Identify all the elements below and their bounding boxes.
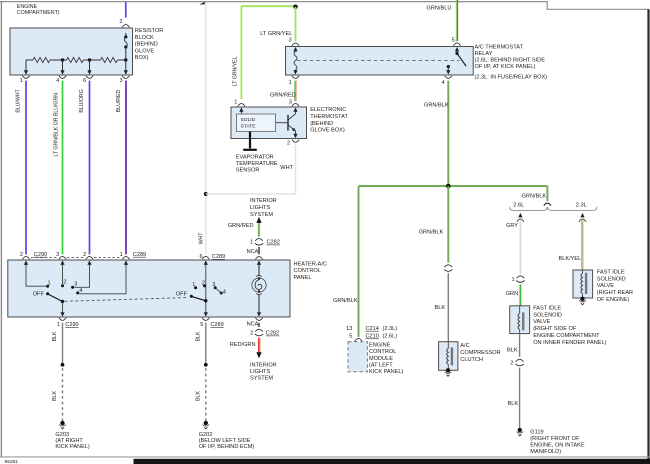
label engine compartment [17, 4, 60, 16]
blower switch feed wires inside panel [26, 265, 126, 294]
panel pin 1 C289 [120, 252, 147, 265]
svg-text:(2.6L: BEHIND RIGHT SIDE: (2.6L: BEHIND RIGHT SIDE [475, 58, 546, 64]
blower switch wiper arm [49, 294, 65, 312]
svg-text:NCA: NCA [247, 249, 259, 255]
panel top pin 1 C282 for lamp [247, 239, 280, 265]
svg-text:MODULE: MODULE [369, 356, 393, 362]
pin 2 resistor block [119, 19, 129, 33]
svg-text:4: 4 [79, 288, 82, 294]
svg-text:COMPRESSOR: COMPRESSOR [460, 350, 500, 356]
relay internal dashed divider [297, 59, 460, 61]
svg-text:GLOVE: GLOVE [135, 48, 155, 54]
svg-text:1: 1 [192, 282, 195, 288]
svg-text:PANEL: PANEL [294, 275, 312, 281]
wire GRN/BLK from relay pin 4 [424, 81, 449, 186]
2.6L branch tap arrow [517, 213, 524, 222]
svg-text:C282: C282 [266, 331, 279, 337]
wire BLU/ORG [79, 81, 89, 255]
resistor element 2 [67, 57, 84, 62]
svg-text:OFF: OFF [33, 292, 45, 298]
svg-text:BLK: BLK [435, 305, 446, 311]
svg-text:LT GRN/BLK OR BLU/GRN: LT GRN/BLK OR BLU/GRN [53, 93, 59, 157]
svg-text:4: 4 [223, 290, 226, 296]
a/c compressor clutch box [439, 342, 458, 371]
svg-text:INTERIOR: INTERIOR [250, 363, 277, 369]
svg-text:ENGINE: ENGINE [17, 4, 38, 10]
svg-text:(BEHIND: (BEHIND [310, 121, 333, 127]
page frame top border [0, 2, 648, 10]
wire BLK from panel pin 5 [195, 323, 206, 365]
junction dots on resistor chain [61, 58, 128, 61]
svg-text:GRN/BLK: GRN/BLK [522, 193, 547, 199]
label fast idle solenoid valve 2.6L [533, 305, 606, 346]
solid state module box [237, 114, 276, 132]
wire between C282 and panel edge [258, 247, 260, 254]
svg-text:BLU/WHT: BLU/WHT [16, 88, 22, 112]
svg-text:TEMPERATURE: TEMPERATURE [236, 161, 278, 167]
svg-text:2.3L: 2.3L [576, 202, 587, 208]
svg-text:3: 3 [212, 282, 215, 288]
wire LT GRN/YEL right leg to relay pin 3 [260, 7, 295, 41]
svg-text:3: 3 [56, 252, 59, 258]
svg-text:VALVE: VALVE [597, 283, 614, 289]
wire BLU/WHT [16, 81, 27, 255]
resistor element 3 [101, 57, 118, 62]
panel bottom pin 2 C282 [247, 312, 280, 336]
thermostat pin 2 [287, 134, 299, 147]
svg-text:3: 3 [119, 78, 122, 84]
svg-text:BOX): BOX) [135, 55, 149, 61]
dashed BLK wire to G202 [195, 368, 206, 421]
relay coil [294, 51, 297, 69]
junction node LT GRN/YEL [293, 5, 298, 10]
wire WHT vertical run [198, 3, 205, 254]
svg-text:KICK PANEL): KICK PANEL) [369, 369, 404, 375]
label heater a/c control panel [294, 261, 327, 281]
panel pin 3 [56, 252, 66, 265]
svg-text:FAST IDLE: FAST IDLE [597, 269, 625, 275]
svg-text:BLK: BLK [195, 331, 201, 341]
label fast idle solenoid valve 2.3L [597, 269, 633, 303]
thermostat pin 1 [234, 100, 245, 114]
transistor Q inside thermostat [276, 114, 296, 134]
svg-text:2: 2 [202, 280, 205, 286]
wire end connector caret [544, 203, 551, 205]
relay switch contacts and arm [447, 51, 467, 70]
svg-text:2: 2 [63, 280, 66, 286]
svg-text:CONTROL: CONTROL [369, 349, 396, 355]
inline connector 2 solenoid branch [510, 359, 524, 366]
wire GRN/BLK left leg to ECM [333, 186, 359, 337]
a/c thermostat relay box [286, 47, 474, 76]
resistor block bottom pin 3 [119, 70, 129, 84]
resistor block bottom pin 4 [56, 70, 66, 84]
svg-text:COMPARTMENT): COMPARTMENT) [17, 10, 60, 16]
wire GRN into left solenoid [506, 284, 521, 306]
electronic thermostat box [231, 107, 307, 139]
resistor element 1 [33, 57, 50, 62]
svg-text:GRN: GRN [506, 291, 518, 297]
ECM pin connector [346, 326, 397, 341]
svg-text:2: 2 [287, 141, 290, 147]
svg-text:GRY: GRY [506, 223, 518, 229]
svg-text:OF ENGINE): OF ENGINE) [597, 297, 630, 303]
wire BLU/RED [116, 81, 126, 255]
splice brace 2.6L/2.3L [510, 202, 597, 210]
svg-text:2: 2 [250, 331, 253, 337]
solenoid 2.3L coil [581, 270, 586, 298]
resistor block bottom pin 6 [83, 70, 93, 84]
svg-text:C214: C214 [366, 326, 379, 332]
junction node GRN/BLK [446, 184, 451, 189]
engine control module dashed box [348, 342, 367, 372]
solenoid 2.6L coil [518, 306, 523, 334]
svg-text:1: 1 [57, 322, 60, 328]
page frame right border [647, 9, 649, 464]
svg-text:4: 4 [56, 78, 59, 84]
wire BLK to compressor clutch [435, 273, 449, 342]
svg-text:(AT RIGHT: (AT RIGHT [55, 438, 83, 444]
svg-text:5: 5 [452, 38, 455, 44]
svg-text:C282: C282 [267, 240, 280, 246]
svg-text:MANIFOLD): MANIFOLD) [530, 449, 561, 455]
svg-text:RED/GRN: RED/GRN [230, 342, 256, 348]
panel pin 2b [83, 252, 93, 265]
fast idle solenoid valve 2.3L box [573, 270, 593, 298]
svg-text:BLK: BLK [52, 391, 58, 401]
svg-text:STATE: STATE [241, 123, 257, 129]
heater a/c control panel box [8, 260, 290, 317]
splice dot right ground wire [204, 363, 208, 367]
svg-text:3: 3 [74, 281, 77, 287]
svg-text:BLK: BLK [507, 347, 518, 353]
svg-text:C290: C290 [65, 322, 78, 328]
svg-text:1: 1 [20, 78, 23, 84]
svg-text:5: 5 [349, 334, 352, 340]
svg-text:(RIGHT SIDE OF: (RIGHT SIDE OF [533, 326, 577, 332]
label interior lights system top [250, 198, 277, 218]
svg-text:BLK: BLK [52, 331, 58, 341]
svg-text:85281: 85281 [5, 459, 19, 464]
svg-text:OF I/P, BEHIND ECM): OF I/P, BEHIND ECM) [199, 444, 255, 450]
svg-text:BLK: BLK [508, 401, 519, 407]
mode switch feed wire inside panel [205, 265, 207, 312]
page frame bottom line [0, 456, 650, 458]
2.3L branch tap arrow [579, 213, 586, 222]
svg-text:2: 2 [20, 252, 23, 258]
relay pin 1 [289, 70, 300, 86]
svg-text:CLUTCH: CLUTCH [460, 357, 483, 363]
svg-text:KICK PANEL): KICK PANEL) [55, 444, 90, 450]
svg-text:SOLID: SOLID [241, 117, 256, 123]
svg-text:A/C THERMOSTAT: A/C THERMOSTAT [475, 45, 524, 51]
blower switch contacts 1-4 and OFF [33, 280, 83, 298]
connector dashes C290/C289 along panel top [31, 256, 122, 258]
panel bottom pin 1 C290 [57, 312, 79, 328]
svg-text:SYSTEM: SYSTEM [250, 212, 273, 218]
wire LT GRN/YEL left leg to thermostat pin 1 [233, 6, 242, 99]
svg-text:BLU/ORG: BLU/ORG [79, 89, 85, 112]
wire BLK below left solenoid [507, 334, 520, 357]
resistor chain wire [26, 59, 126, 61]
svg-text:2: 2 [119, 19, 122, 25]
svg-text:SYSTEM: SYSTEM [250, 375, 273, 381]
svg-text:5: 5 [200, 322, 203, 328]
svg-text:CONTROL: CONTROL [294, 268, 321, 274]
svg-text:NCA: NCA [247, 322, 259, 328]
wire WHT branch to thermostat pin 2 [206, 144, 296, 194]
svg-text:EVAPORATOR: EVAPORATOR [236, 155, 274, 161]
svg-text:(RIGHT REAR: (RIGHT REAR [597, 290, 633, 296]
svg-text:WHT: WHT [198, 232, 204, 245]
lamp feed wire inside panel [258, 265, 260, 276]
svg-text:SENSOR: SENSOR [236, 167, 260, 173]
svg-text:VALVE: VALVE [533, 319, 550, 325]
svg-text:ENGINE, ON INTAKE: ENGINE, ON INTAKE [530, 443, 585, 449]
wire BLK to G119 [508, 368, 520, 428]
svg-text:(2.3L): (2.3L) [383, 326, 398, 332]
mechanical coupling dashed link [65, 298, 189, 302]
wire GRY [506, 220, 520, 273]
svg-text:HEATER-A/C: HEATER-A/C [294, 261, 327, 267]
drop wires to bottom pins inside resistor block [26, 60, 126, 70]
wire GRN/BLK right leg [522, 186, 548, 201]
label engine control module [369, 342, 404, 375]
splice dot left ground wire [61, 363, 65, 367]
svg-text:G203: G203 [55, 432, 69, 438]
wire BLK from panel pin 1 [52, 323, 63, 365]
thermostat pin 3 [289, 100, 299, 114]
svg-text:(2.3L: IN FUSE/RELAY BOX): (2.3L: IN FUSE/RELAY BOX) [475, 75, 548, 81]
svg-text:C289: C289 [133, 252, 146, 258]
svg-text:1: 1 [511, 277, 514, 283]
svg-text:GRN/BLK: GRN/BLK [333, 298, 358, 304]
svg-text:ELECTRONIC: ELECTRONIC [310, 107, 346, 113]
svg-text:C210: C210 [366, 334, 379, 340]
label a/c compressor clutch [460, 343, 500, 363]
svg-text:LIGHTS: LIGHTS [250, 369, 270, 375]
svg-text:OFF: OFF [176, 292, 188, 298]
wire BLK/YEL [559, 220, 584, 270]
fast idle solenoid valve 2.6L box [510, 306, 530, 334]
svg-text:1: 1 [289, 80, 292, 86]
svg-text:GLOVE BOX): GLOVE BOX) [310, 128, 345, 134]
relay pin 4 [442, 70, 452, 86]
evaporator temperature sensor probe [243, 132, 257, 150]
svg-text:INTERIOR: INTERIOR [250, 198, 277, 204]
lamp return wire inside panel [258, 294, 260, 312]
svg-text:GRN/BLK: GRN/BLK [419, 229, 444, 235]
case ground compressor clutch [445, 368, 452, 376]
svg-text:LT GRN/YEL: LT GRN/YEL [260, 31, 292, 37]
svg-text:SOLENOID: SOLENOID [533, 312, 562, 318]
svg-text:C289: C289 [212, 254, 225, 260]
ground G202 [199, 421, 255, 450]
relay pin 5 [452, 38, 461, 52]
svg-text:BLK/YEL: BLK/YEL [559, 256, 582, 262]
svg-text:ENGINE COMPARTMENT: ENGINE COMPARTMENT [533, 333, 600, 339]
junction node WHT [204, 192, 208, 196]
svg-text:BLOCK: BLOCK [135, 35, 154, 41]
label electronic thermostat [310, 107, 348, 133]
svg-text:C289: C289 [210, 322, 223, 328]
wire GRN/BLK center leg to compressor clutch [419, 186, 449, 263]
svg-text:OF I/P, AT KICK PANEL): OF I/P, AT KICK PANEL) [475, 64, 536, 70]
svg-text:BLU/RED: BLU/RED [116, 90, 122, 113]
wire GRN/RED to interior lights [228, 217, 262, 237]
svg-text:1: 1 [47, 280, 50, 286]
svg-text:(RIGHT FRONT OF: (RIGHT FRONT OF [530, 436, 580, 442]
wire RED/GRN down to interior lights [230, 338, 262, 359]
off-page curl mark WHT wire [199, 2, 204, 5]
svg-text:(BELOW LEFT SIDE: (BELOW LEFT SIDE [199, 438, 251, 444]
svg-text:2: 2 [510, 361, 513, 367]
panel pin 6 C289 [199, 254, 225, 265]
inline connector 1 solenoid branch [511, 276, 524, 283]
svg-text:LIGHTS: LIGHTS [250, 205, 270, 211]
resistor block bottom pin 1 [20, 70, 30, 84]
svg-text:1: 1 [250, 240, 253, 246]
svg-text:WHT: WHT [280, 165, 293, 171]
wire GRN/BLU into relay pin 5 [427, 0, 458, 41]
label interior lights system bottom [250, 363, 277, 382]
svg-text:13: 13 [346, 326, 352, 332]
wire BLU into resistor block pin 2 [125, 2, 127, 18]
svg-text:G202: G202 [199, 432, 213, 438]
dashed BLK wire to G203 [52, 368, 63, 421]
svg-text:C290: C290 [34, 252, 47, 258]
svg-text:GRN/BLU: GRN/BLU [427, 6, 452, 12]
svg-text:2.6L: 2.6L [513, 202, 524, 208]
svg-text:2: 2 [83, 252, 86, 258]
mode switch wiper arm [192, 297, 207, 303]
svg-text:(BEHIND: (BEHIND [135, 42, 158, 48]
svg-text:FAST IDLE: FAST IDLE [533, 305, 561, 311]
svg-text:6: 6 [199, 254, 202, 260]
panel pin 2 C290 [20, 252, 47, 265]
svg-text:ENGINE: ENGINE [369, 342, 391, 348]
svg-text:(2.6L): (2.6L) [383, 334, 398, 340]
wire GRN/BLK horizontal distribution [359, 185, 548, 187]
svg-text:6: 6 [83, 78, 86, 84]
svg-text:THERMOSTAT: THERMOSTAT [310, 114, 348, 120]
svg-text:SOLENOID: SOLENOID [597, 276, 626, 282]
svg-text:1: 1 [234, 100, 237, 106]
svg-text:RESISTOR: RESISTOR [135, 28, 164, 34]
svg-text:GRN/BLK: GRN/BLK [424, 103, 449, 109]
thermal limiter element inside resistor block [124, 33, 127, 60]
case ground 2.3L solenoid [579, 297, 586, 305]
relay pin 3 [289, 38, 300, 52]
mode switch contacts 1-4 and OFF [176, 280, 226, 297]
page frame left border [0, 2, 2, 457]
illumination lamp [252, 275, 266, 294]
svg-text:3: 3 [289, 100, 292, 106]
svg-text:1: 1 [120, 252, 123, 258]
svg-text:A/C: A/C [460, 343, 469, 349]
compressor clutch coil [447, 342, 452, 371]
svg-text:(AT LEFT: (AT LEFT [369, 363, 393, 369]
wire LT GRN/BLK OR BLU/GRN [53, 81, 62, 255]
svg-text:ON INNER FENDER PANEL): ON INNER FENDER PANEL) [533, 340, 606, 346]
svg-text:4: 4 [442, 80, 445, 86]
svg-text:BLK: BLK [195, 391, 201, 401]
label resistor block [135, 28, 164, 61]
wire GRN/RED relay pin 1 to thermostat pin 3 [270, 81, 296, 102]
label a/c thermostat relay [475, 45, 548, 81]
inline connector clutch branch [444, 265, 452, 272]
label evaporator temperature sensor [236, 155, 278, 174]
svg-text:3: 3 [289, 38, 292, 44]
bottom black bar [134, 459, 650, 464]
svg-text:G119: G119 [530, 430, 543, 436]
svg-text:GRN/RED: GRN/RED [228, 223, 254, 229]
svg-text:RELAY: RELAY [475, 51, 493, 57]
panel bottom pin 5 C289 [200, 312, 224, 328]
ground G203 [55, 421, 90, 450]
svg-text:GRN/RED: GRN/RED [270, 92, 296, 98]
resistor block R1 box [10, 28, 133, 75]
ground G119 [516, 428, 584, 455]
svg-text:LT GRN/YEL: LT GRN/YEL [233, 56, 239, 86]
wire LT GRN/YEL horizontal top [241, 5, 295, 7]
